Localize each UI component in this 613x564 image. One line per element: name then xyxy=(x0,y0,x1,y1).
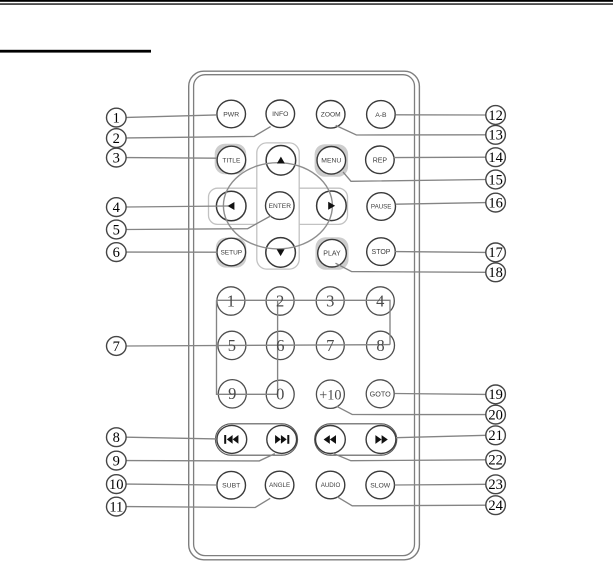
svg-text:REP: REP xyxy=(373,157,388,164)
svg-text:8: 8 xyxy=(113,430,120,446)
svg-text:1: 1 xyxy=(227,291,235,310)
svg-text:15: 15 xyxy=(488,172,503,188)
svg-text:STOP: STOP xyxy=(372,249,391,256)
svg-text:SETUP: SETUP xyxy=(220,249,242,256)
svg-text:4: 4 xyxy=(113,200,121,216)
svg-text:PWR: PWR xyxy=(223,111,239,118)
svg-text:22: 22 xyxy=(488,453,503,469)
svg-text:3: 3 xyxy=(326,291,334,310)
svg-text:24: 24 xyxy=(488,498,503,514)
svg-text:INFO: INFO xyxy=(272,111,288,118)
svg-text:A-B: A-B xyxy=(375,112,387,119)
svg-text:13: 13 xyxy=(488,128,503,144)
svg-text:7: 7 xyxy=(326,336,334,355)
svg-text:23: 23 xyxy=(488,477,503,493)
svg-text:9: 9 xyxy=(113,453,120,469)
svg-text:14: 14 xyxy=(488,150,503,166)
svg-text:ENTER: ENTER xyxy=(269,203,292,210)
svg-text:ZOOM: ZOOM xyxy=(321,112,341,119)
svg-text:19: 19 xyxy=(488,387,503,403)
svg-text:8: 8 xyxy=(376,336,384,355)
svg-text:+10: +10 xyxy=(319,388,341,404)
svg-text:9: 9 xyxy=(228,384,236,403)
svg-text:SLOW: SLOW xyxy=(370,482,391,489)
svg-text:PAUSE: PAUSE xyxy=(371,204,392,211)
svg-text:21: 21 xyxy=(488,428,503,444)
svg-text:PLAY: PLAY xyxy=(323,251,341,258)
svg-text:5: 5 xyxy=(113,222,120,238)
svg-text:6: 6 xyxy=(276,336,284,355)
svg-text:3: 3 xyxy=(113,150,120,166)
svg-text:2: 2 xyxy=(276,291,284,310)
svg-text:ANGLE: ANGLE xyxy=(269,482,290,489)
svg-text:MENU: MENU xyxy=(321,158,341,165)
svg-text:7: 7 xyxy=(113,339,120,355)
svg-text:1: 1 xyxy=(113,110,120,126)
svg-text:18: 18 xyxy=(488,265,503,281)
svg-text:GOTO: GOTO xyxy=(370,389,391,398)
svg-text:11: 11 xyxy=(109,499,123,515)
svg-text:6: 6 xyxy=(113,245,120,261)
svg-text:12: 12 xyxy=(488,108,503,124)
svg-text:TITLE: TITLE xyxy=(222,157,241,164)
svg-text:17: 17 xyxy=(488,245,503,261)
svg-text:5: 5 xyxy=(228,336,236,355)
svg-text:AUDIO: AUDIO xyxy=(321,482,341,489)
svg-text:4: 4 xyxy=(376,291,384,310)
svg-text:0: 0 xyxy=(276,385,284,404)
svg-text:16: 16 xyxy=(488,195,503,211)
svg-text:2: 2 xyxy=(113,131,120,147)
svg-text:SUBT: SUBT xyxy=(222,483,240,490)
svg-text:20: 20 xyxy=(488,407,503,423)
svg-text:10: 10 xyxy=(109,477,124,493)
